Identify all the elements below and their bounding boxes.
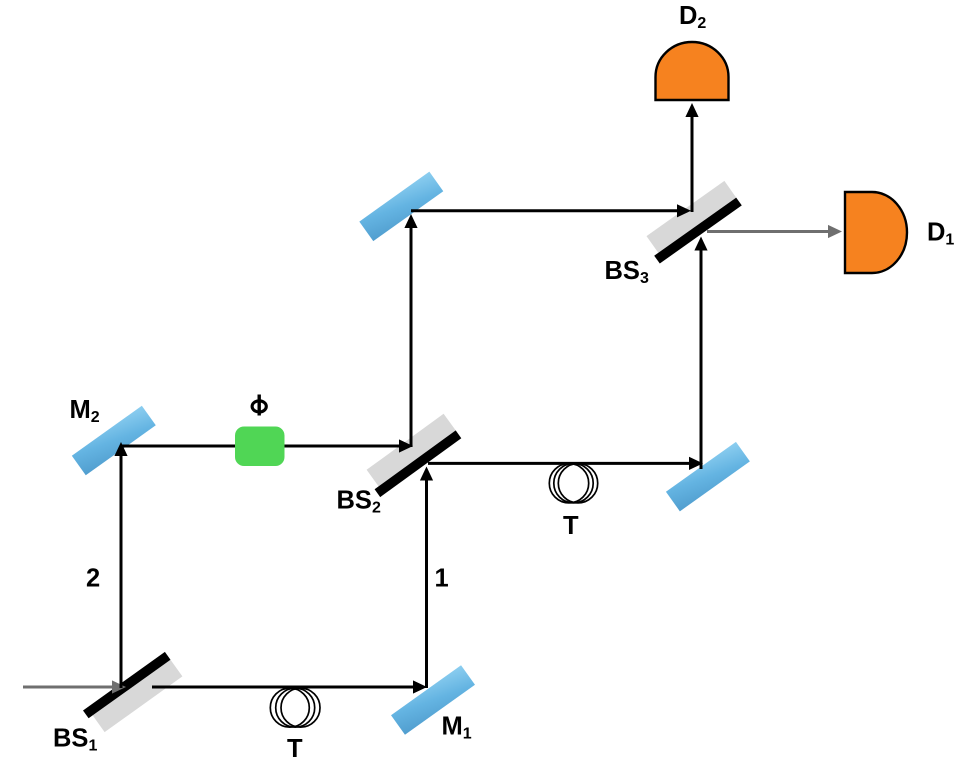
beam splitter BS1 — [83, 652, 182, 732]
fiber coil T (upper) — [549, 464, 597, 503]
beam splitter BS3 — [647, 181, 742, 264]
fiber coil T (bottom) — [270, 688, 320, 727]
beam M1 to BS2, path 1 (wire) — [420, 467, 433, 689]
detector D1 — [845, 192, 907, 273]
beam BS1 to M1 (wire) — [152, 680, 427, 693]
svg-text:BS3: BS3 — [605, 257, 649, 287]
svg-text:T: T — [563, 512, 579, 540]
svg-text:M2: M2 — [70, 396, 100, 426]
beam BS1 to M2, path 2 (wire) — [114, 442, 127, 688]
svg-text:M1: M1 — [442, 713, 472, 743]
beam BS3 up to D2 (wire) — [685, 103, 698, 212]
beam BS2 up to top mirror (wire) — [404, 214, 417, 447]
mirror (right, unlabeled) — [666, 442, 750, 511]
svg-text:1: 1 — [435, 565, 449, 593]
label phi — [252, 395, 266, 416]
beam BS2 to right mirror through coil T (wire) — [428, 457, 703, 470]
beam BS3 to D1 (gray arrow) — [707, 225, 842, 238]
beam M2 to BS2 through phase shifter (wire) — [120, 439, 413, 452]
svg-text:BS1: BS1 — [53, 725, 97, 755]
mirror M1 — [391, 665, 475, 734]
svg-text:BS2: BS2 — [337, 486, 381, 516]
detector D2 — [656, 42, 729, 100]
svg-text:T: T — [287, 735, 303, 761]
mirror (top, unlabeled) — [359, 172, 443, 241]
beam splitter BS2 — [367, 414, 462, 497]
svg-text:D2: D2 — [679, 2, 706, 32]
beam top mirror to BS3 (wire) — [411, 204, 691, 217]
mirror M2 — [72, 406, 156, 475]
input beam (gray arrow into BS1) — [23, 680, 126, 693]
phase shifter phi — [235, 427, 285, 467]
svg-text:2: 2 — [86, 565, 100, 593]
beam right mirror up to BS3 (wire) — [694, 237, 707, 470]
svg-text:D1: D1 — [927, 219, 954, 249]
